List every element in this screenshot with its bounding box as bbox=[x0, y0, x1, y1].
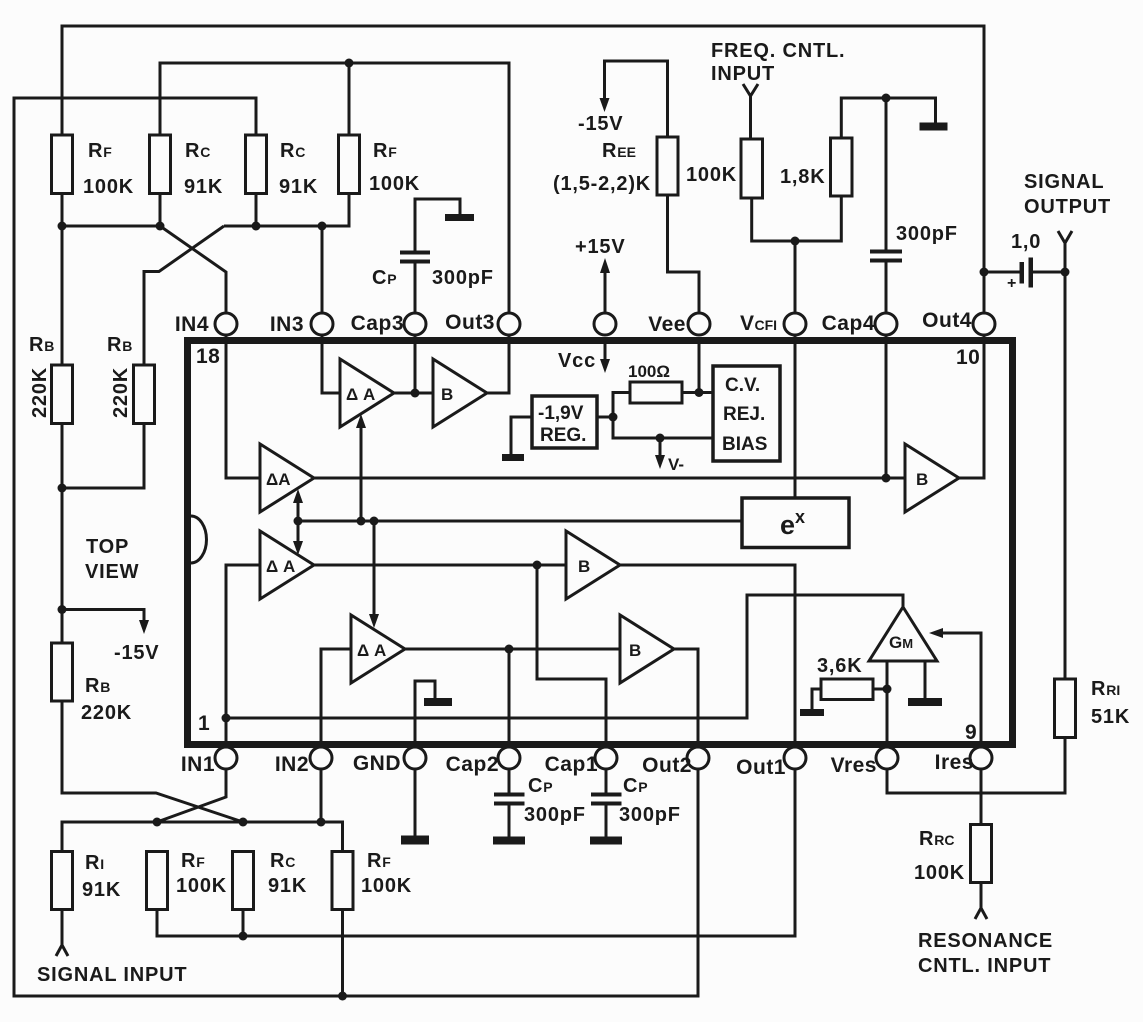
svg-text:100K: 100K bbox=[361, 875, 412, 897]
pin Out4 bbox=[922, 309, 995, 335]
svg-text:ΔA: ΔA bbox=[266, 470, 291, 489]
wire Ires arrow into GM bbox=[929, 628, 981, 758]
svg-text:91K: 91K bbox=[279, 176, 318, 198]
svg-text:C.V.: C.V. bbox=[725, 375, 760, 396]
op-amp A4 bbox=[351, 615, 405, 683]
ground bar right of 1,8K bbox=[920, 123, 948, 131]
svg-text:1: 1 bbox=[198, 712, 210, 735]
wire B2 output to Out1 bbox=[620, 565, 795, 758]
wire IN4 to amp A2 bbox=[226, 324, 260, 478]
box -1,9V REG bbox=[532, 396, 597, 448]
wire Cap4 drop bbox=[885, 324, 888, 478]
svg-text:300pF: 300pF bbox=[619, 804, 681, 826]
node Out4 junction bbox=[980, 268, 989, 277]
wire IN2 drop bbox=[320, 758, 323, 822]
terminal FREQ CNTL INPUT bbox=[711, 40, 845, 139]
wire IN3 to amp A1 bbox=[322, 324, 340, 393]
wire A3 input from pin1 bbox=[226, 565, 260, 758]
pin Cap1 bbox=[545, 747, 617, 776]
node RC3 top bbox=[239, 818, 248, 827]
svg-text:GND: GND bbox=[353, 752, 401, 775]
wire A2 output bus to B4 bbox=[314, 477, 905, 480]
svg-text:INPUT: INPUT bbox=[711, 63, 775, 85]
svg-text:91K: 91K bbox=[184, 176, 223, 198]
svg-text:REG.: REG. bbox=[540, 425, 586, 446]
double arrow A2 A3 bbox=[293, 489, 303, 555]
wire top rail Out4 to RF1 bbox=[62, 26, 984, 478]
wire 100K+1,8K bottoms to VCFI bbox=[752, 196, 842, 241]
ground bar at CP Cap3 bbox=[445, 214, 474, 221]
resistor 3,6K bbox=[800, 655, 887, 716]
svg-text:TOP: TOP bbox=[86, 536, 129, 558]
wire A1 output to B1 with Cap3 drop bbox=[394, 324, 433, 393]
wire Out3 rail to RC1 bbox=[160, 63, 509, 324]
node -15V branch bbox=[58, 605, 67, 614]
ground at GND pin bbox=[401, 758, 429, 845]
node RF4 bottom bbox=[338, 992, 347, 1001]
node A3 out tap bbox=[533, 561, 542, 570]
arrow down to A4 bbox=[369, 521, 379, 628]
resistor RC3 91K bbox=[233, 850, 308, 910]
pin IN2 bbox=[275, 747, 332, 776]
node RC3 bottom bbox=[239, 932, 248, 941]
svg-text:CP: CP bbox=[623, 775, 648, 797]
node output junction bbox=[1061, 268, 1070, 277]
wire RB1 RB2 bottoms join bbox=[62, 424, 144, 610]
svg-text:10: 10 bbox=[956, 346, 980, 369]
svg-text:RESONANCE: RESONANCE bbox=[918, 930, 1053, 952]
svg-text:B: B bbox=[916, 470, 928, 489]
wire pin1 bus to GM input bbox=[226, 595, 903, 718]
svg-text:RF: RF bbox=[88, 140, 112, 162]
wire RF4 bottom to Out2 rail bbox=[341, 910, 344, 997]
svg-text:18: 18 bbox=[196, 345, 220, 368]
svg-text:BIAS: BIAS bbox=[722, 434, 767, 455]
svg-text:Cap2: Cap2 bbox=[446, 753, 499, 776]
capacitor CP 300pF at Cap1 bbox=[590, 758, 681, 845]
svg-text:3,6K: 3,6K bbox=[817, 655, 862, 677]
node ex bus c bbox=[370, 517, 379, 526]
svg-text:Cap3: Cap3 bbox=[351, 312, 404, 335]
wire GM left leg to Vres bbox=[886, 661, 889, 758]
svg-text:RB: RB bbox=[29, 334, 54, 356]
node RF2 top bbox=[345, 59, 354, 68]
arrow up to A1 bbox=[356, 414, 366, 521]
svg-text:CP: CP bbox=[372, 267, 397, 289]
Vcc arrow inside bbox=[558, 342, 610, 373]
wire REE bottom to Vee bbox=[668, 195, 700, 324]
svg-text:V-: V- bbox=[668, 455, 684, 474]
resistor 100 ohm bbox=[597, 362, 713, 438]
svg-text:300pF: 300pF bbox=[896, 223, 958, 245]
svg-text:RI: RI bbox=[85, 852, 104, 874]
node RF3 top bbox=[153, 818, 162, 827]
wire ex bus bbox=[298, 520, 742, 523]
svg-text:RF: RF bbox=[367, 850, 391, 872]
pin VCFI bbox=[740, 312, 806, 335]
pin Vres bbox=[831, 747, 898, 777]
svg-text:Δ A: Δ A bbox=[346, 385, 375, 404]
resistor RC2 91K bbox=[246, 135, 319, 198]
svg-text:Vres: Vres bbox=[831, 754, 877, 777]
wire output to RRI bbox=[1064, 272, 1067, 679]
terminal RESONANCE CNTL INPUT bbox=[918, 883, 1053, 978]
wire VCFI to ex box bbox=[794, 324, 797, 498]
wire RF2 top lead bbox=[348, 63, 351, 135]
svg-text:B: B bbox=[578, 557, 590, 576]
resistor RB1 220K bbox=[29, 226, 73, 424]
wire diagonal RC1 node to IN4 bbox=[160, 226, 226, 324]
node IN2 tap bbox=[317, 818, 326, 827]
svg-text:IN1: IN1 bbox=[181, 753, 215, 776]
wire RRI bottom to Vres bbox=[887, 738, 1065, 794]
svg-text:Vcc: Vcc bbox=[558, 350, 596, 372]
svg-text:B: B bbox=[441, 385, 453, 404]
wire Cap2 drop bbox=[508, 649, 511, 758]
capacitor 1,0 output coupling bbox=[984, 231, 1065, 292]
IC package outline bbox=[188, 341, 1013, 745]
wire IN2 to A4 bbox=[321, 649, 351, 758]
node RB join bbox=[58, 484, 67, 493]
wire VCFI riser bbox=[794, 241, 797, 324]
wire tap to Cap1 bbox=[537, 565, 606, 758]
svg-text:RC: RC bbox=[280, 140, 305, 162]
wire IN1 diagonal to RF3 bbox=[157, 758, 226, 822]
svg-text:51K: 51K bbox=[1091, 706, 1130, 728]
svg-text:RB: RB bbox=[107, 334, 132, 356]
svg-text:RRI: RRI bbox=[1091, 678, 1120, 700]
svg-text:(1,5-2,2)K: (1,5-2,2)K bbox=[553, 173, 651, 195]
box C.V. REJ. BIAS bbox=[713, 366, 780, 461]
svg-text:+15V: +15V bbox=[575, 236, 625, 258]
svg-text:100K: 100K bbox=[686, 164, 737, 186]
capacitor CP 300pF at Cap2 bbox=[493, 758, 586, 845]
resistor 100K freq bbox=[686, 139, 763, 198]
svg-text:B: B bbox=[629, 641, 641, 660]
capacitor CP 300pF at Cap3 bbox=[372, 199, 494, 324]
wire IN3 riser bbox=[321, 226, 324, 324]
wire REE top rail with -15V arrow bbox=[578, 61, 668, 137]
svg-text:300pF: 300pF bbox=[524, 804, 586, 826]
svg-text:-15V: -15V bbox=[114, 642, 159, 664]
svg-text:100K: 100K bbox=[369, 173, 420, 195]
svg-text:REE: REE bbox=[602, 140, 636, 162]
svg-text:RRC: RRC bbox=[919, 828, 954, 850]
pin IN1 bbox=[181, 747, 237, 776]
wire B3 output to Out2 bbox=[674, 649, 698, 758]
svg-text:-15V: -15V bbox=[578, 113, 623, 135]
op-amp B1 bbox=[433, 359, 487, 427]
resistor RB3 220K bbox=[52, 610, 133, 725]
svg-text:Out2: Out2 bbox=[642, 754, 692, 777]
pin number 10 bbox=[956, 346, 980, 369]
pin Cap2 bbox=[446, 747, 520, 776]
node A1 out bbox=[411, 389, 420, 398]
capacitor 300pF at Cap4 bbox=[870, 98, 958, 324]
wire A4 output to B3 bbox=[405, 648, 620, 651]
svg-text:Cap1: Cap1 bbox=[545, 753, 598, 776]
node 3,6K junction bbox=[883, 685, 892, 694]
wire input node bus bbox=[62, 822, 343, 852]
wire A3 output to B2 bbox=[314, 564, 566, 567]
svg-text:-1,9V: -1,9V bbox=[538, 403, 584, 424]
svg-text:RF: RF bbox=[181, 850, 205, 872]
pin Ires bbox=[935, 747, 992, 774]
op-amp A1 bbox=[340, 359, 394, 427]
svg-text:RC: RC bbox=[270, 850, 295, 872]
ground at REG bbox=[502, 417, 532, 461]
node VCFI tap bbox=[791, 237, 800, 246]
svg-text:Out1: Out1 bbox=[736, 756, 786, 779]
resistor RF3 100K bbox=[147, 850, 228, 910]
op-amp B2 bbox=[566, 531, 620, 599]
svg-text:Δ A: Δ A bbox=[266, 557, 295, 576]
wire GM right leg to ground bbox=[908, 661, 942, 706]
svg-text:SIGNAL: SIGNAL bbox=[1024, 171, 1104, 193]
wire RB3 bottom diagonal to RC3 bbox=[62, 701, 243, 822]
pin Vcc bbox=[594, 313, 616, 335]
node ex bus b bbox=[357, 517, 366, 526]
svg-text:91K: 91K bbox=[82, 879, 121, 901]
svg-text:+: + bbox=[1007, 275, 1016, 292]
node Cap2 junction bbox=[505, 645, 514, 654]
node IN3 tap bbox=[318, 222, 327, 231]
svg-text:OUTPUT: OUTPUT bbox=[1024, 196, 1111, 218]
wire RC2 to left border to bottom rail to Out2 bbox=[14, 98, 698, 996]
svg-text:220K: 220K bbox=[110, 367, 132, 418]
pin number 18 bbox=[196, 345, 220, 368]
svg-text:100K: 100K bbox=[83, 176, 134, 198]
svg-text:Cap4: Cap4 bbox=[822, 312, 875, 335]
svg-text:FREQ. CNTL.: FREQ. CNTL. bbox=[711, 40, 845, 62]
terminal SIGNAL INPUT bbox=[37, 910, 187, 987]
svg-text:Vee: Vee bbox=[648, 313, 686, 336]
wire 1,8K top to ground and Cap4 rail bbox=[841, 98, 935, 138]
resistor RF2 100K bbox=[339, 135, 421, 195]
svg-text:100Ω: 100Ω bbox=[628, 362, 670, 381]
resistor 1,8K bbox=[780, 138, 852, 196]
wire node row right segment to RC2 RF2 bbox=[224, 194, 349, 227]
node RC2 bottom bbox=[252, 222, 261, 231]
svg-text:IN3: IN3 bbox=[270, 313, 304, 336]
pin Cap4 bbox=[822, 312, 897, 335]
resistor RRC 100K bbox=[914, 825, 992, 885]
wire -15V branch arrow bbox=[62, 610, 159, 665]
wire RC2 bottom stub bbox=[255, 194, 258, 227]
node 100ohm left bbox=[609, 413, 618, 422]
node V- tap bbox=[656, 434, 665, 443]
wire RC3 bottom stub bbox=[242, 910, 245, 937]
wire +15V arrow to Vcc pin bbox=[575, 236, 625, 324]
svg-text:1,0: 1,0 bbox=[1011, 231, 1041, 253]
svg-text:100K: 100K bbox=[176, 875, 227, 897]
op-amp A2 bbox=[260, 444, 314, 512]
wire Vee drop bbox=[698, 342, 701, 393]
pin number 1 bbox=[198, 712, 210, 735]
resistor RI 91K bbox=[52, 852, 122, 910]
pin Out1 bbox=[736, 747, 806, 779]
pin IN3 bbox=[270, 313, 333, 336]
pin number 9 bbox=[965, 721, 977, 744]
label TOP VIEW bbox=[85, 536, 139, 583]
svg-text:GM: GM bbox=[889, 633, 913, 652]
node Vee junction bbox=[695, 388, 704, 397]
pin Cap3 bbox=[351, 312, 426, 335]
pin GND bbox=[353, 747, 426, 775]
resistor RF4 100K bbox=[332, 850, 412, 910]
svg-text:Out4: Out4 bbox=[922, 309, 972, 332]
op-amp B3 bbox=[620, 615, 674, 683]
op-amp B4 bbox=[905, 444, 959, 512]
resistor REE (1,5-2,2)K bbox=[553, 137, 678, 195]
svg-text:91K: 91K bbox=[268, 875, 307, 897]
node ex bus a bbox=[294, 517, 303, 526]
box ex bbox=[742, 498, 849, 548]
resistor RB2 220K bbox=[107, 334, 155, 424]
svg-text:9: 9 bbox=[965, 721, 977, 744]
node Cap4 junction bbox=[882, 474, 891, 483]
node pin1 bus bbox=[222, 714, 231, 723]
pin IN4 bbox=[175, 313, 237, 336]
IC notch bbox=[191, 516, 206, 563]
svg-text:SIGNAL INPUT: SIGNAL INPUT bbox=[37, 964, 187, 986]
resistor RF1 100K bbox=[52, 135, 135, 198]
wire Ires to RRC bbox=[980, 758, 983, 825]
svg-text:100K: 100K bbox=[914, 862, 965, 884]
svg-text:IN2: IN2 bbox=[275, 753, 309, 776]
pin Out2 bbox=[642, 747, 709, 777]
svg-text:Δ A: Δ A bbox=[357, 641, 386, 660]
svg-text:RB: RB bbox=[85, 675, 110, 697]
resistor RC1 91K bbox=[150, 135, 224, 198]
svg-text:1,8K: 1,8K bbox=[780, 166, 825, 188]
svg-text:CNTL. INPUT: CNTL. INPUT bbox=[918, 955, 1051, 977]
op-amp A3 bbox=[260, 531, 314, 599]
svg-text:Ires: Ires bbox=[935, 751, 974, 774]
transconductance amp GM bbox=[869, 607, 937, 661]
svg-text:220K: 220K bbox=[81, 702, 132, 724]
svg-text:RC: RC bbox=[185, 140, 210, 162]
resistor RRI 51K bbox=[1055, 678, 1131, 738]
svg-text:REJ.: REJ. bbox=[723, 404, 765, 425]
wire node row left segment RF1-RC1 bbox=[62, 194, 160, 227]
pin Vee bbox=[648, 313, 710, 336]
wire RF3 RC3 bottoms to Out1 bbox=[157, 758, 795, 936]
node Cap4 rail bbox=[882, 94, 891, 103]
wire B1 output to Out3 bbox=[487, 324, 509, 393]
node RC1 bottom bbox=[156, 222, 165, 231]
svg-text:CP: CP bbox=[528, 775, 553, 797]
svg-text:300pF: 300pF bbox=[432, 267, 494, 289]
svg-text:VIEW: VIEW bbox=[85, 561, 139, 583]
svg-text:RF: RF bbox=[373, 140, 397, 162]
ground at GND inside bbox=[415, 681, 452, 758]
arrow V- bbox=[655, 438, 684, 474]
svg-text:Out3: Out3 bbox=[445, 311, 495, 334]
wire diagonal cross to RB2 bbox=[144, 226, 224, 365]
svg-text:IN4: IN4 bbox=[175, 313, 209, 336]
pin Out3 bbox=[445, 311, 520, 335]
node RF1 bottom bbox=[58, 222, 67, 231]
terminal SIGNAL OUTPUT bbox=[1024, 171, 1111, 272]
svg-text:220K: 220K bbox=[29, 367, 51, 418]
